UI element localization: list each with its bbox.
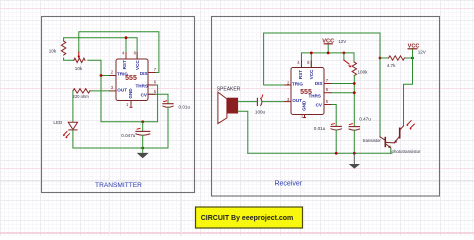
junction dot VCC1 stem: [327, 52, 330, 55]
gray major grid line y=181: [0, 180, 474, 182]
junction dot rail B / pin 4: [125, 36, 128, 39]
junction dot 0.01u bottom: [335, 152, 338, 155]
speaker LS1 magnet: [227, 98, 238, 114]
transistor Q1: [380, 137, 385, 141]
power VCC2 symbol: [412, 49, 414, 58]
junction dot ground receiver: [353, 152, 356, 155]
junction dot 0.047u top: [141, 120, 144, 123]
svg-text:0.01u: 0.01u: [314, 126, 326, 131]
wire CV to 0.01u: [331, 105, 336, 127]
pin 1 stub GND: [130, 101, 132, 108]
phototransistor Q2: [399, 128, 401, 137]
svg-text:VCC: VCC: [135, 60, 140, 70]
pink major grid line y=168: [0, 168, 474, 170]
junction dot wiper: [343, 52, 346, 55]
pin 4 stub RST: [301, 61, 303, 68]
resistor R3 4.7k leads: [380, 57, 413, 59]
ground symbol transmitter: [142, 148, 144, 153]
op-amp/timer U1 555 body: [109, 52, 156, 108]
pink major grid line y=88: [0, 88, 474, 90]
svg-text:CV: CV: [316, 103, 323, 108]
wire bottom rail receiver: [248, 152, 391, 154]
junction dot 4.7k tap: [379, 57, 382, 60]
pin 8 stub VCC: [136, 52, 138, 59]
pin 7 stub DIS: [148, 72, 156, 74]
svg-text:TRIG: TRIG: [292, 81, 303, 86]
svg-text:220 ohm: 220 ohm: [73, 94, 90, 99]
svg-text:phototransistor: phototransistor: [392, 149, 422, 154]
wire DIS: [331, 83, 354, 85]
wire speaker bottom to rail: [238, 111, 248, 153]
wire OUT to 220 ohm: [90, 90, 109, 92]
wire rail B: VCC rail to pins 4 and 8: [64, 38, 138, 59]
power VCC1 symbol: [327, 44, 329, 53]
resistor 220 ohm horizontal: [73, 89, 90, 93]
wire 220 ohm down to LED: [72, 91, 74, 122]
wire R1 bottom to pot left: [64, 58, 74, 60]
pin 2 stub TRIG: [284, 84, 291, 86]
wire TRIG top rail to transistor collector: [264, 33, 380, 137]
op-amp/timer U2 555 body: [284, 61, 332, 118]
svg-text:GND: GND: [128, 88, 133, 99]
pot wiper arrow: [78, 52, 80, 56]
LED emission arrows: [63, 132, 69, 138]
svg-text:Receiver: Receiver: [274, 180, 302, 187]
svg-text:12V: 12V: [338, 39, 347, 44]
svg-text:CV: CV: [141, 93, 148, 98]
vertical major grid line x=181: [181, 0, 183, 236]
pin 8 stub VCC: [310, 61, 312, 68]
svg-text:0.47u: 0.47u: [359, 117, 371, 122]
LED D1: [68, 122, 77, 129]
svg-text:TRANSMITTER: TRANSMITTER: [95, 182, 142, 189]
svg-text:DIS: DIS: [315, 81, 323, 86]
pin 2 stub TRIG: [109, 75, 116, 77]
pin 6 stub THRS: [148, 84, 156, 86]
pin 4 stub RST: [125, 52, 127, 59]
svg-text:RST: RST: [122, 60, 127, 69]
wire pot bottom through DIS THRS to 0.47u: [353, 76, 355, 127]
svg-text:GND: GND: [301, 100, 306, 111]
resistor R3 4.7k: [389, 56, 405, 60]
receiver enclosure box: [212, 17, 440, 197]
pin 6 stub THRS: [324, 92, 332, 94]
vertical major grid line x=109: [109, 0, 111, 236]
capacitor C3 100u: [256, 98, 258, 105]
wire 100u to OUT: [262, 101, 284, 103]
pin 5 stub CV: [148, 93, 156, 95]
junction dot TRIG node: [100, 74, 103, 77]
junction dot VCC2: [411, 57, 414, 60]
svg-text:SPEAKER: SPEAKER: [217, 86, 241, 92]
svg-text:4.7k: 4.7k: [387, 63, 396, 68]
svg-text:100k: 100k: [358, 69, 369, 74]
wire speaker top to 100u: [238, 101, 257, 103]
wire top rail RST/VCC: [302, 53, 355, 68]
wire Q1 base to Q2 emitter: [385, 141, 394, 143]
pin 1 stub GND: [304, 115, 306, 118]
svg-text:555: 555: [300, 89, 312, 96]
junction dot bottom rail / ground: [141, 147, 144, 150]
light arrows into Q2: [407, 121, 414, 129]
pink major grid line y=233: [0, 232, 474, 234]
potentiometer 10k horizontal: [74, 58, 85, 62]
wire wiper drop: [343, 53, 345, 60]
svg-text:10k: 10k: [75, 66, 83, 71]
svg-text:LED: LED: [53, 120, 63, 125]
pink major grid line y=8: [0, 8, 474, 10]
capacitor C1 0.01u: [163, 103, 173, 105]
pin 5 stub CV: [324, 104, 332, 106]
junction dot THRS: [353, 91, 356, 94]
resistor R1 10k vertical: [61, 41, 65, 55]
wire LED to bottom rail: [73, 130, 168, 148]
pot wiper arrow 100k: [344, 60, 349, 64]
svg-text:100u: 100u: [255, 109, 266, 114]
junction dot pin8 rail: [310, 52, 313, 55]
svg-text:VCC: VCC: [309, 69, 314, 79]
svg-text:VCC: VCC: [322, 39, 334, 45]
svg-text:CIRCUIT By eeeproject.com: CIRCUIT By eeeproject.com: [201, 215, 294, 222]
pin 3 stub OUT: [284, 101, 291, 103]
wire THRS: [331, 92, 354, 94]
pin 7 stub DIS: [324, 83, 332, 85]
svg-text:10k: 10k: [49, 48, 57, 53]
svg-text:12V: 12V: [418, 49, 427, 54]
svg-text:OUT: OUT: [117, 87, 127, 92]
wire CV to 0.01u: [148, 94, 168, 103]
svg-text:0.01u: 0.01u: [179, 105, 191, 110]
capacitor C2 0.047u: [142, 122, 144, 131]
svg-text:RST: RST: [298, 70, 303, 79]
svg-text:0.047u: 0.047u: [121, 133, 135, 138]
capacitor C5 0.47u: [349, 126, 359, 128]
junction dot DIS: [353, 82, 356, 85]
speaker LS1 cone: [218, 92, 227, 124]
watermark banner: [196, 207, 303, 228]
svg-text:THRS: THRS: [135, 83, 148, 88]
wire VCC2 to phototransistor collector: [404, 58, 413, 126]
svg-text:555: 555: [125, 75, 137, 82]
transmitter enclosure box: [42, 17, 195, 193]
wire rail A: pot wiper to DIS pin 7: [79, 32, 159, 73]
capacitor C4 0.01u: [331, 125, 341, 127]
potentiometer 100k vertical: [352, 62, 356, 75]
svg-text:DIS: DIS: [140, 71, 148, 76]
svg-text:transistor: transistor: [363, 138, 382, 143]
ground symbol receiver: [353, 153, 355, 164]
pin 3 stub OUT: [109, 90, 116, 92]
wire pot right to TRIG node and down to THRS link: [88, 60, 158, 122]
